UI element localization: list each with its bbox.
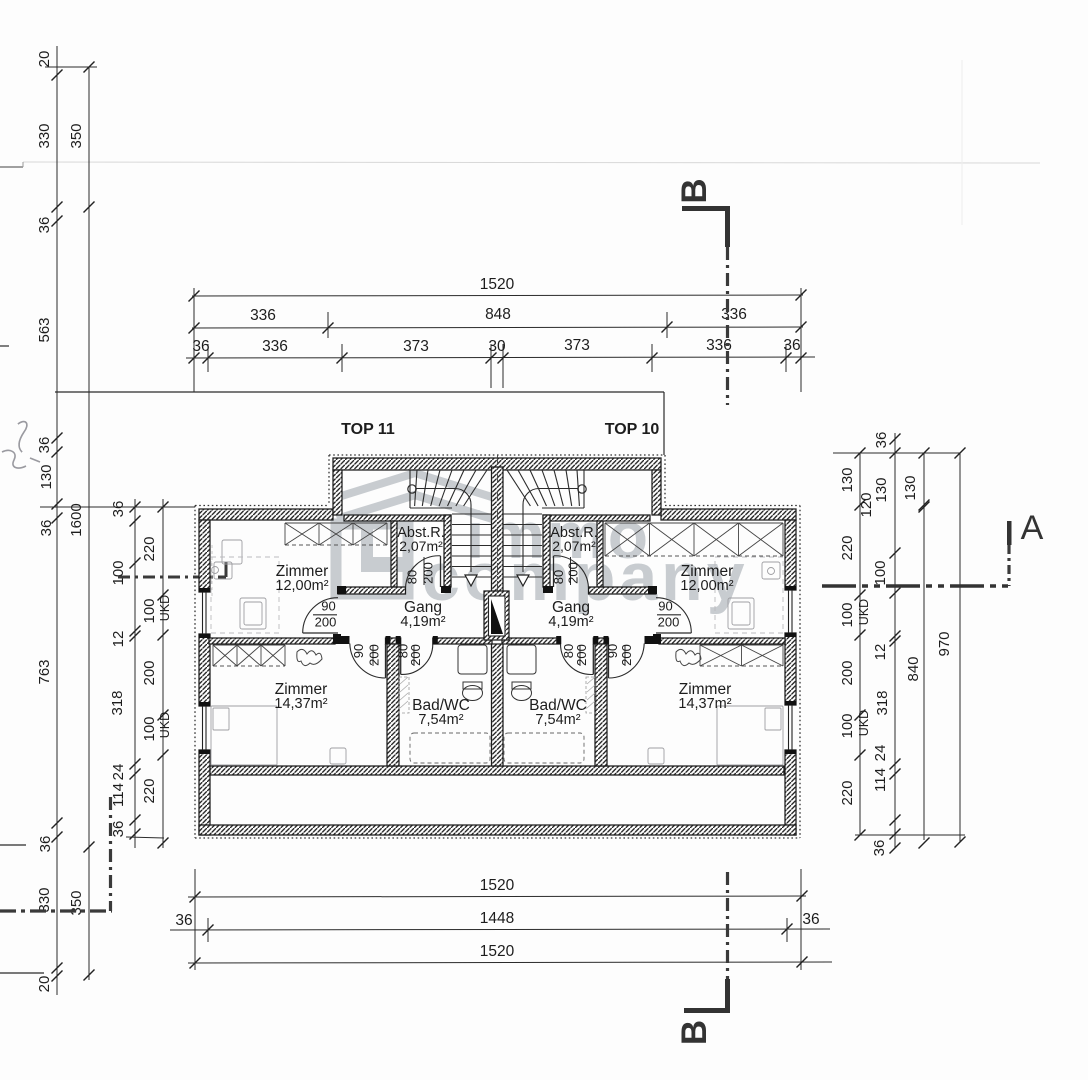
svg-text:1520: 1520 bbox=[480, 276, 515, 293]
svg-text:220: 220 bbox=[141, 778, 158, 803]
svg-text:330: 330 bbox=[36, 887, 53, 912]
svg-text:12: 12 bbox=[872, 644, 889, 661]
svg-text:220: 220 bbox=[141, 536, 158, 561]
svg-text:200: 200 bbox=[315, 615, 337, 630]
svg-text:100: 100 bbox=[141, 598, 158, 623]
svg-text:100: 100 bbox=[872, 560, 889, 585]
svg-text:114: 114 bbox=[110, 783, 127, 807]
svg-text:12: 12 bbox=[110, 631, 127, 648]
svg-text:7,54m²: 7,54m² bbox=[535, 712, 580, 728]
svg-text:UKD: UKD bbox=[857, 710, 871, 736]
svg-text:130: 130 bbox=[873, 477, 890, 502]
svg-text:20: 20 bbox=[36, 976, 53, 993]
svg-text:12,00m²: 12,00m² bbox=[275, 578, 328, 594]
svg-text:130: 130 bbox=[839, 467, 856, 492]
svg-text:90: 90 bbox=[605, 644, 620, 658]
svg-text:UKD: UKD bbox=[158, 712, 172, 738]
svg-text:336: 336 bbox=[721, 306, 747, 323]
svg-text:30: 30 bbox=[488, 338, 506, 355]
svg-text:763: 763 bbox=[36, 659, 53, 684]
svg-text:220: 220 bbox=[839, 535, 856, 560]
svg-text:36: 36 bbox=[783, 337, 800, 354]
svg-text:373: 373 bbox=[403, 338, 429, 355]
svg-text:TOP 10: TOP 10 bbox=[605, 421, 660, 438]
svg-text:100: 100 bbox=[141, 716, 158, 741]
svg-text:80: 80 bbox=[551, 570, 566, 584]
svg-text:373: 373 bbox=[564, 337, 590, 354]
svg-text:UKD: UKD bbox=[158, 595, 172, 621]
svg-text:90: 90 bbox=[321, 599, 335, 614]
svg-text:318: 318 bbox=[109, 690, 126, 715]
svg-text:840: 840 bbox=[905, 656, 922, 681]
svg-text:7,54m²: 7,54m² bbox=[418, 712, 463, 728]
svg-text:200: 200 bbox=[839, 660, 856, 685]
svg-text:318: 318 bbox=[874, 690, 891, 715]
svg-text:200: 200 bbox=[141, 660, 158, 685]
svg-text:1520: 1520 bbox=[480, 943, 515, 960]
svg-text:1520: 1520 bbox=[480, 877, 515, 894]
svg-text:200: 200 bbox=[421, 562, 436, 584]
svg-text:200: 200 bbox=[619, 644, 634, 666]
svg-text:2,07m²: 2,07m² bbox=[399, 538, 443, 554]
svg-text:130: 130 bbox=[902, 475, 919, 500]
svg-text:336: 336 bbox=[262, 338, 288, 355]
svg-text:36: 36 bbox=[37, 836, 54, 853]
svg-text:UKD: UKD bbox=[857, 599, 871, 625]
svg-text:114: 114 bbox=[872, 768, 889, 792]
svg-text:36: 36 bbox=[175, 912, 192, 929]
svg-text:100: 100 bbox=[839, 602, 856, 627]
svg-text:A: A bbox=[1021, 509, 1044, 547]
svg-text:36: 36 bbox=[871, 840, 888, 857]
svg-text:36: 36 bbox=[802, 911, 819, 928]
svg-text:36: 36 bbox=[110, 821, 127, 838]
svg-text:1600: 1600 bbox=[68, 503, 85, 536]
svg-text:336: 336 bbox=[250, 307, 276, 324]
svg-text:12,00m²: 12,00m² bbox=[680, 578, 733, 594]
svg-text:130: 130 bbox=[38, 464, 55, 489]
svg-text:80: 80 bbox=[405, 570, 420, 584]
svg-text:36: 36 bbox=[192, 338, 209, 355]
svg-text:TOP 11: TOP 11 bbox=[341, 421, 395, 438]
svg-text:200: 200 bbox=[574, 644, 589, 666]
svg-text:B: B bbox=[675, 178, 714, 203]
svg-text:200: 200 bbox=[566, 562, 581, 584]
svg-text:2,07m²: 2,07m² bbox=[552, 538, 596, 554]
svg-text:100: 100 bbox=[110, 560, 127, 585]
svg-text:970: 970 bbox=[936, 631, 953, 656]
svg-text:36: 36 bbox=[110, 501, 127, 518]
svg-text:36: 36 bbox=[38, 520, 55, 537]
svg-text:4,19m²: 4,19m² bbox=[548, 614, 593, 630]
svg-text:200: 200 bbox=[408, 644, 423, 666]
svg-text:90: 90 bbox=[658, 599, 672, 614]
svg-text:36: 36 bbox=[36, 437, 53, 454]
svg-text:20: 20 bbox=[36, 51, 53, 68]
svg-text:200: 200 bbox=[367, 644, 382, 666]
svg-text:4,19m²: 4,19m² bbox=[400, 614, 445, 630]
svg-text:14,37m²: 14,37m² bbox=[274, 696, 327, 712]
svg-text:350: 350 bbox=[68, 123, 85, 148]
svg-text:14,37m²: 14,37m² bbox=[678, 696, 731, 712]
svg-text:36: 36 bbox=[873, 432, 890, 449]
svg-text:1448: 1448 bbox=[480, 910, 514, 927]
svg-text:B: B bbox=[675, 1020, 714, 1045]
svg-text:24: 24 bbox=[110, 764, 127, 781]
svg-text:848: 848 bbox=[485, 306, 511, 323]
svg-text:100: 100 bbox=[839, 713, 856, 738]
svg-text:24: 24 bbox=[872, 745, 889, 762]
svg-text:90: 90 bbox=[351, 644, 366, 658]
svg-text:200: 200 bbox=[658, 615, 680, 630]
svg-text:220: 220 bbox=[839, 780, 856, 805]
svg-text:330: 330 bbox=[36, 123, 53, 148]
svg-text:36: 36 bbox=[36, 217, 53, 234]
svg-text:563: 563 bbox=[36, 317, 53, 342]
